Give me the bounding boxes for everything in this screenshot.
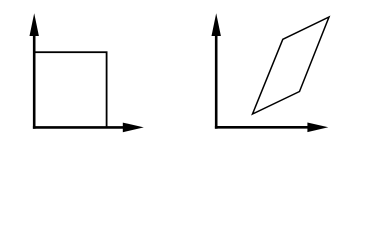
sheared parallelogram (253, 17, 330, 114)
left x-axis line (33, 126, 128, 129)
right y-axis line (215, 28, 218, 129)
left x-axis arrowhead (123, 123, 144, 133)
right y-axis arrowhead (212, 13, 221, 36)
left y-axis line (33, 28, 36, 129)
right x-axis line (215, 126, 313, 129)
unit square (34, 52, 106, 127)
right x-axis arrowhead (307, 123, 328, 133)
left y-axis arrowhead (30, 13, 39, 36)
